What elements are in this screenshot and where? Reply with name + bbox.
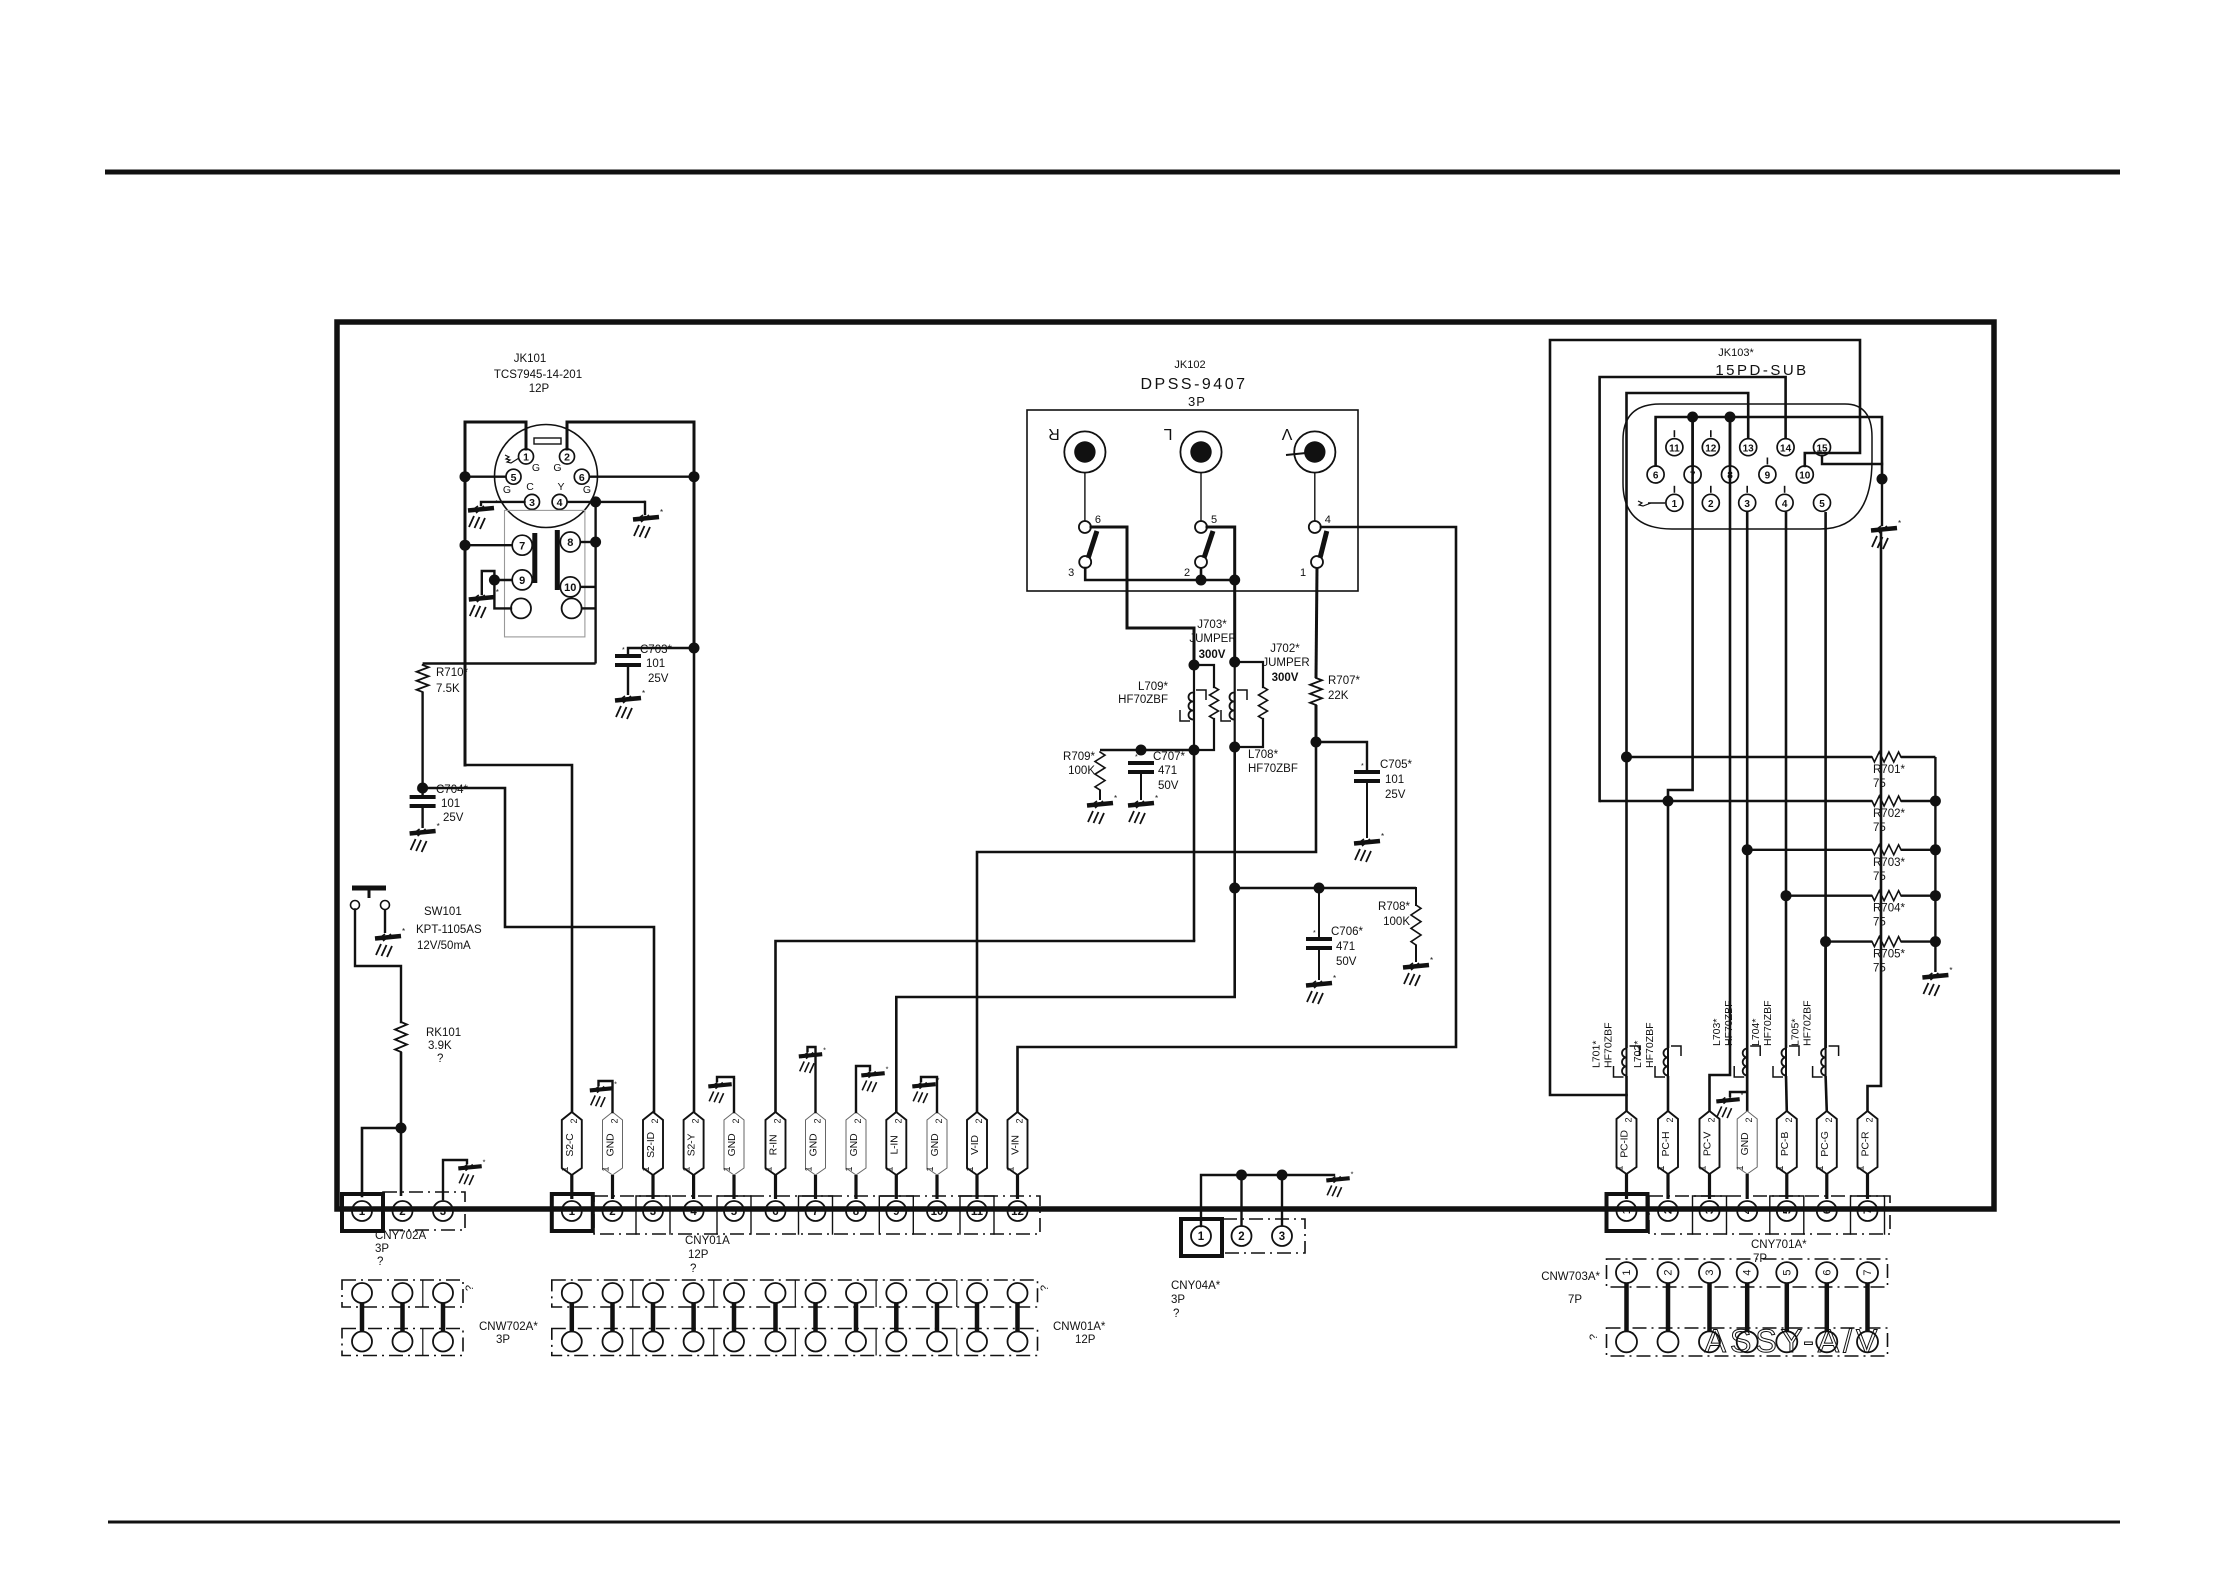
svg-text:1: 1: [1735, 1165, 1745, 1170]
connector CNY01A pin1 box: [552, 1194, 593, 1231]
svg-text:?: ?: [464, 1285, 476, 1291]
resistor R707: [1310, 678, 1322, 742]
svg-text:PC-G: PC-G: [1819, 1131, 1831, 1156]
wire JK102 V pin1 drop: [1316, 568, 1317, 678]
label R702: [1873, 808, 1905, 834]
resistor R708: [1411, 888, 1421, 962]
svg-text:HF70ZBF: HF70ZBF: [1762, 1000, 1774, 1046]
resistor R703: [1872, 845, 1935, 855]
connector CNW703A bottom box: [1607, 1328, 1888, 1356]
svg-text:6: 6: [579, 472, 585, 484]
JK103 pin 1 stub: [1673, 486, 1675, 493]
wire tag PC-R to pin: [1866, 1174, 1869, 1199]
node JK101 pin7 junction: [460, 540, 513, 551]
svg-text:C704*: C704*: [436, 784, 468, 796]
svg-text:*: *: [496, 588, 499, 597]
svg-text:2: 2: [974, 1118, 984, 1123]
ground at CNY04A: [1326, 1169, 1353, 1197]
svg-text:100K: 100K: [1068, 765, 1095, 777]
JK102 R jack switch: [1068, 473, 1101, 579]
svg-text:3P: 3P: [496, 1334, 510, 1346]
wire R709/C707 branch: [1100, 749, 1194, 751]
connector CNY04A digits: [1198, 1231, 1285, 1243]
wire L line down: [1233, 747, 1236, 888]
svg-text:1: 1: [1300, 567, 1306, 579]
ground below R708: [1403, 956, 1433, 986]
svg-text:6: 6: [1821, 1208, 1833, 1214]
wire pin4 column down: [1785, 512, 1788, 1048]
svg-text:V-ID: V-ID: [969, 1135, 981, 1155]
svg-text:?: ?: [377, 1256, 383, 1268]
label R703: [1873, 857, 1905, 883]
svg-text:V-IN: V-IN: [1010, 1135, 1022, 1155]
wire gnd hook at x=937: [921, 1077, 937, 1112]
svg-text:PC-R: PC-R: [1860, 1131, 1872, 1156]
resistor R702: [1872, 796, 1935, 806]
svg-text:1: 1: [1698, 1165, 1708, 1170]
svg-text:1: 1: [641, 1166, 651, 1171]
svg-text:C707*: C707*: [1153, 751, 1185, 763]
JK101 pin 2: [560, 449, 575, 464]
label J703: [1189, 619, 1236, 661]
wire JK103 pin10 loop to PC-ID: [1550, 340, 1860, 1095]
capacitor C705: [1354, 763, 1380, 838]
svg-text:R704*: R704*: [1873, 903, 1905, 915]
JK103 pin 6: [1647, 466, 1664, 483]
ground below R709: [1087, 794, 1117, 824]
wire L704 to PC-B: [1785, 1076, 1788, 1112]
svg-text:L708*: L708*: [1248, 749, 1279, 761]
connector CNW703A pins: [1616, 1262, 1878, 1352]
capacitor C706: [1306, 888, 1332, 980]
svg-text:12P: 12P: [529, 383, 550, 395]
JK101 pin 6: [574, 469, 589, 484]
ground at JK101 pin4: [633, 508, 663, 538]
svg-text:1: 1: [682, 1166, 692, 1171]
JK102 R jack: [1048, 425, 1105, 473]
svg-text:KPT-1105AS: KPT-1105AS: [416, 924, 482, 936]
wire JK102 R pin3 common: [1085, 568, 1235, 580]
svg-text:1: 1: [1656, 1165, 1666, 1170]
JK103 pin 3: [1739, 494, 1756, 511]
wire R signal to R-IN: [776, 941, 1195, 1112]
net tag R-IN pin 6: [764, 1112, 786, 1175]
JK103 pin 11 stub: [1673, 430, 1675, 437]
svg-text:101: 101: [646, 658, 665, 670]
svg-text:2: 2: [610, 1118, 620, 1123]
resistor R710: [417, 665, 429, 692]
wire C704 to ground: [421, 806, 423, 828]
label R709: [1063, 751, 1095, 777]
svg-text:101: 101: [1385, 774, 1404, 786]
svg-text:PC-H: PC-H: [1660, 1132, 1672, 1157]
svg-text:*: *: [1741, 1090, 1744, 1099]
svg-text:2: 2: [1663, 1270, 1675, 1276]
ground below bus: [1922, 966, 1952, 996]
wire pin4 column down: [594, 502, 596, 664]
label CNY702A: [375, 1230, 426, 1268]
svg-text:1: 1: [1006, 1166, 1016, 1171]
wire pin9 node to ground: [482, 571, 495, 594]
svg-text:R: R: [1048, 425, 1060, 442]
svg-text:C703*: C703*: [640, 644, 672, 656]
svg-text:ASSY-A/V: ASSY-A/V: [1705, 1323, 1882, 1359]
node JK101 pin6 junction: [589, 471, 699, 482]
connector CNY04A pin1 box: [1181, 1219, 1222, 1256]
svg-text:12: 12: [1011, 1206, 1024, 1218]
svg-text:100K: 100K: [1383, 916, 1410, 928]
node JK101 pin9 junction: [489, 575, 512, 586]
svg-text:JUMPER: JUMPER: [1262, 657, 1309, 669]
svg-text:12: 12: [1705, 443, 1717, 454]
label L701: [1591, 1022, 1615, 1068]
node R705 tap: [1820, 936, 1831, 947]
svg-text:9: 9: [1765, 471, 1771, 482]
inductor L708: [1221, 662, 1247, 747]
svg-text:L709*: L709*: [1138, 681, 1169, 693]
svg-text:S2-ID: S2-ID: [645, 1131, 657, 1157]
svg-text:?: ?: [437, 1053, 443, 1065]
wire JK103 gnd bus pins 6-7-8: [1656, 417, 1882, 479]
svg-text:CNY701A*: CNY701A*: [1751, 1239, 1807, 1251]
svg-text:V: V: [1281, 425, 1292, 442]
svg-text:PC-V: PC-V: [1702, 1132, 1714, 1156]
svg-text:L702*: L702*: [1632, 1041, 1644, 1068]
svg-text:R707*: R707*: [1328, 675, 1360, 687]
svg-text:1: 1: [1621, 1270, 1633, 1276]
wire R702 tap to L702: [1667, 801, 1670, 1048]
wire CNY04A bus: [1201, 1175, 1334, 1226]
svg-text:2: 2: [893, 1118, 903, 1123]
svg-text:11: 11: [1669, 443, 1680, 454]
svg-text:?: ?: [1173, 1308, 1179, 1320]
svg-text:4: 4: [1782, 499, 1788, 510]
ground at SW101: [375, 927, 405, 957]
svg-text:9: 9: [893, 1206, 899, 1218]
label CNY701A: [1751, 1239, 1807, 1265]
svg-text:3: 3: [440, 1206, 446, 1218]
net tag PC-H: [1656, 1111, 1678, 1174]
resistor RK101: [395, 1022, 407, 1052]
connector CNY702A pins: [352, 1201, 453, 1221]
svg-text:471: 471: [1158, 765, 1177, 777]
resistor R704: [1872, 891, 1935, 901]
connector CNY04A dash box: [1223, 1219, 1305, 1253]
inductor L701: [1614, 1046, 1640, 1077]
connector CNW703A top box: [1607, 1259, 1888, 1287]
svg-text:HF70ZBF: HF70ZBF: [1248, 763, 1298, 775]
svg-text:1: 1: [1672, 499, 1678, 510]
svg-text:1: 1: [884, 1166, 894, 1171]
ground below C704: [410, 822, 440, 852]
wire right drop to C703 node: [693, 477, 696, 648]
svg-text:R708*: R708*: [1378, 901, 1410, 913]
svg-text:2: 2: [731, 1118, 741, 1123]
svg-text:HF70ZBF: HF70ZBF: [1723, 1000, 1735, 1046]
wire gnd hook at x=612.5: [599, 1081, 613, 1112]
inductor L704: [1773, 1046, 1799, 1077]
svg-text:12P: 12P: [1075, 1334, 1096, 1346]
node C706 line left: [1229, 883, 1240, 894]
svg-text:25V: 25V: [1385, 789, 1406, 801]
connector CNY701A digits: [1621, 1207, 1874, 1214]
label R708: [1378, 901, 1410, 928]
svg-text:G: G: [532, 462, 540, 474]
svg-text:TCS7945-14-201: TCS7945-14-201: [494, 369, 582, 381]
ground at tag x=937: [912, 1075, 939, 1103]
svg-text:2: 2: [1708, 499, 1714, 510]
label C703: [640, 644, 672, 685]
svg-text:*: *: [1430, 956, 1433, 965]
wire JK101 pin4 right: [567, 501, 645, 503]
wire pin5 column down: [1824, 512, 1827, 1048]
node R702 L702 tap: [1663, 796, 1674, 807]
svg-text:CNY702A: CNY702A: [375, 1230, 426, 1242]
svg-text:75: 75: [1873, 917, 1886, 929]
JK103 pin 7: [1684, 466, 1701, 483]
connector CNY702A digits: [359, 1206, 446, 1218]
svg-text:1: 1: [925, 1166, 935, 1171]
net tag PC-B: [1775, 1111, 1797, 1174]
svg-text:CNY01A: CNY01A: [685, 1235, 730, 1247]
net tag S2-ID pin 3: [641, 1112, 663, 1175]
ground at CNY701A GND: [1716, 1090, 1743, 1118]
svg-text:1: 1: [523, 452, 529, 464]
ground at tag x=856: [861, 1064, 888, 1092]
svg-text:*: *: [483, 1157, 486, 1166]
net tag GND pin 5: [722, 1112, 744, 1175]
svg-text:2: 2: [1238, 1231, 1244, 1243]
node gnd bus: [1877, 474, 1888, 485]
label CNW703A query: [1588, 1334, 1600, 1340]
JK101 shield bar right: [555, 530, 560, 590]
JK103 pin 14: [1777, 439, 1794, 456]
svg-text:13: 13: [1743, 443, 1755, 454]
svg-text:3: 3: [1704, 1270, 1716, 1276]
svg-text:GND: GND: [808, 1133, 820, 1156]
svg-text:G: G: [503, 484, 511, 496]
node J702 bottom: [1229, 742, 1240, 753]
label CNW01A: [1053, 1321, 1106, 1346]
node J702 top: [1229, 657, 1240, 668]
connector JK102 label: [1141, 359, 1248, 409]
svg-text:2: 2: [1624, 1117, 1634, 1122]
svg-text:*: *: [417, 788, 420, 795]
JK102 V jack tip mark: [1286, 453, 1306, 455]
svg-text:3P: 3P: [375, 1243, 389, 1255]
net tag PC-G: [1815, 1111, 1837, 1174]
svg-text:75: 75: [1873, 871, 1886, 883]
ground hook CNY701A GND: [1730, 1092, 1747, 1096]
svg-text:C: C: [526, 481, 534, 493]
svg-text:GND: GND: [1739, 1132, 1751, 1155]
net tag S2-Y pin 4: [682, 1112, 704, 1175]
svg-text:3P: 3P: [1171, 1294, 1185, 1306]
node common L pin2: [1196, 568, 1207, 586]
JK101 pin 1: [519, 449, 534, 464]
connector JK101 shell circle: [495, 425, 598, 528]
resistor R709: [1095, 752, 1105, 800]
svg-text:JK102: JK102: [1174, 359, 1205, 371]
svg-text:*: *: [1114, 794, 1117, 803]
JK103 pin8 riser: [1729, 417, 1732, 466]
node R703 bus: [1930, 844, 1941, 855]
svg-text:*: *: [886, 1064, 889, 1073]
node C707 junction: [1136, 745, 1147, 756]
wire JK101 pin10 stub: [580, 586, 595, 588]
svg-text:*: *: [823, 1045, 826, 1054]
svg-text:*: *: [1361, 763, 1364, 770]
svg-text:S2-Y: S2-Y: [686, 1134, 698, 1157]
svg-text:R703*: R703*: [1873, 857, 1905, 869]
svg-text:1: 1: [1815, 1165, 1825, 1170]
node R703 tap: [1742, 844, 1753, 855]
label SW101: [416, 906, 482, 952]
svg-text:GND: GND: [929, 1133, 941, 1156]
label R705: [1873, 949, 1905, 975]
JK103 pin 12 stub: [1710, 430, 1712, 437]
wire C703 stub: [628, 648, 694, 656]
switch SW101 actuator: [352, 888, 386, 898]
svg-text:1: 1: [965, 1166, 975, 1171]
wire R702 line: [1600, 800, 1872, 802]
connector CNY702A dash box: [383, 1192, 465, 1230]
svg-text:Y: Y: [557, 481, 564, 493]
node R707 bottom: [1311, 737, 1322, 748]
JK103 pin 4: [1776, 494, 1793, 511]
wire tag9 to pin: [895, 1175, 898, 1199]
svg-text:4: 4: [1325, 514, 1331, 526]
JK101 pin 8: [560, 532, 580, 552]
svg-text:*: *: [1949, 966, 1952, 975]
svg-text:?: ?: [1588, 1334, 1600, 1340]
net tag S2-C pin 1: [560, 1112, 582, 1175]
svg-text:L: L: [1163, 425, 1172, 442]
svg-text:C705*: C705*: [1380, 759, 1412, 771]
svg-text:L-IN: L-IN: [888, 1135, 900, 1154]
svg-text:1: 1: [359, 1206, 366, 1218]
svg-text:*: *: [1135, 754, 1138, 761]
svg-text:R701*: R701*: [1873, 764, 1905, 776]
wire gnd hook at x=815.5: [808, 1047, 816, 1112]
wire JK101 pin3 to ground: [481, 502, 525, 505]
svg-text:L705*: L705*: [1790, 1019, 1802, 1046]
wire tag4 to pin: [692, 1175, 695, 1199]
svg-text:R705*: R705*: [1873, 949, 1905, 961]
svg-text:2: 2: [650, 1118, 660, 1123]
svg-text:2: 2: [691, 1118, 701, 1123]
JK102 L jack: [1163, 425, 1221, 473]
label C704: [436, 784, 468, 824]
wire R705 line: [1826, 940, 1872, 942]
svg-text:L701*: L701*: [1591, 1041, 1603, 1068]
connector CNY701A pin1 box: [1607, 1194, 1648, 1231]
label C706: [1331, 926, 1363, 968]
label ASSY A/V: [1705, 1323, 1882, 1359]
wire S2-C riser: [465, 765, 572, 1112]
ground at JK103: [1871, 519, 1901, 549]
JK101 mount lug right: [562, 598, 582, 618]
connector JK102 box: [1027, 410, 1358, 591]
svg-text:300V: 300V: [1272, 672, 1299, 684]
net tag L-IN pin 9: [884, 1112, 906, 1175]
wire R701 line: [1627, 756, 1873, 758]
svg-text:2: 2: [1665, 1117, 1675, 1122]
wire tag7 to pin: [814, 1175, 817, 1199]
label J702: [1262, 643, 1309, 684]
wire tag PC-V to pin: [1708, 1174, 1711, 1199]
JK103 pin 5: [1814, 494, 1831, 511]
wire JK101 lug-right stub: [582, 607, 596, 609]
svg-text:75: 75: [1873, 963, 1886, 975]
svg-text:1: 1: [1198, 1231, 1205, 1243]
wire JK101 pin2 to right drop: [567, 422, 694, 477]
JK101 pin 4: [552, 494, 567, 509]
ground below C706: [1306, 974, 1336, 1004]
JK103 pin 8: [1722, 466, 1739, 483]
switch SW101 contacts: [351, 901, 390, 910]
label RK101: [426, 1027, 461, 1065]
node R704 tap: [1781, 890, 1792, 901]
JK101 pin name labels G C Y G: [503, 462, 591, 496]
wire tag8 to pin: [854, 1175, 857, 1199]
wire tag PC-ID to pin: [1625, 1174, 1628, 1199]
svg-text:2: 2: [1744, 1117, 1754, 1122]
svg-text:25V: 25V: [648, 673, 669, 685]
svg-text:*: *: [1155, 794, 1158, 803]
svg-text:7: 7: [812, 1206, 818, 1218]
wire tag10 to pin: [935, 1175, 938, 1199]
svg-text:G: G: [553, 462, 561, 474]
wire CNY702A pin3 riser: [443, 1160, 467, 1199]
svg-text:75: 75: [1873, 822, 1886, 834]
svg-text:4: 4: [1742, 1207, 1754, 1214]
wire horizontal to R710: [423, 662, 596, 664]
net tag PC-V: [1698, 1111, 1720, 1174]
node C704 junction: [417, 783, 428, 794]
net tag GND: [1735, 1111, 1757, 1174]
svg-text:JUMPER: JUMPER: [1189, 633, 1236, 645]
wire L703 to gnd hook: [1746, 1076, 1749, 1112]
inductor L709: [1180, 665, 1206, 750]
svg-text:SW101: SW101: [424, 906, 462, 918]
svg-text:300V: 300V: [1199, 649, 1226, 661]
wire pin3 column down: [1746, 512, 1749, 1092]
JK103 pin 12: [1702, 439, 1719, 456]
label L702: [1632, 1022, 1656, 1068]
label R707: [1328, 675, 1360, 702]
svg-text:*: *: [614, 1079, 617, 1088]
label L709: [1118, 681, 1168, 706]
ground at tag x=734: [708, 1075, 735, 1103]
JK103 pin 9: [1759, 466, 1776, 483]
svg-text:5: 5: [1819, 499, 1825, 510]
svg-text:1: 1: [1856, 1165, 1866, 1170]
svg-text:RK101: RK101: [426, 1027, 461, 1039]
svg-text:1: 1: [764, 1166, 774, 1171]
svg-text:CNY04A*: CNY04A*: [1171, 1280, 1221, 1292]
JK101 mount lug left: [511, 598, 531, 618]
svg-text:CNW01A*: CNW01A*: [1053, 1321, 1106, 1333]
wire JK101 lug-left to pin9 node: [494, 580, 511, 608]
ground below C703: [615, 689, 645, 719]
JK103 pin15 wire: [1822, 456, 1882, 464]
svg-text:1: 1: [569, 1206, 576, 1218]
inductor L705: [1813, 1046, 1839, 1077]
svg-text:14: 14: [1780, 443, 1792, 454]
ground at JK101 pin9: [469, 588, 499, 618]
label CNY04A: [1171, 1280, 1221, 1320]
